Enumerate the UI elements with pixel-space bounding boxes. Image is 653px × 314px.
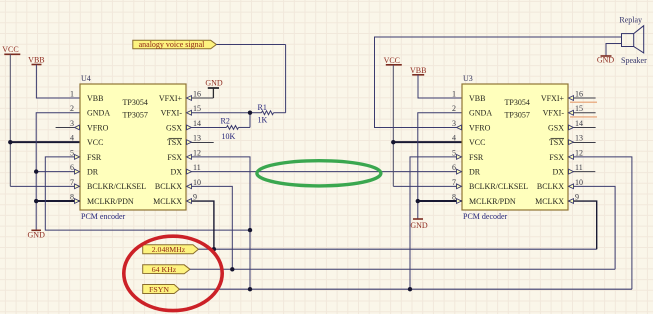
resistor R1 1K — [250, 112, 262, 114]
pin 13 U4 TSX open stub — [187, 142, 214, 144]
pin 13 U3 open stub — [567, 142, 596, 144]
svg-text:GNDA: GNDA — [87, 109, 110, 118]
junction FSYN / U4 FSX — [248, 287, 252, 291]
svg-text:analogy voice signal: analogy voice signal — [139, 40, 206, 49]
wire DX line U4 pin11 to U3 pin6 DR — [187, 171, 462, 173]
red highlight ellipse around clock flags — [124, 236, 222, 310]
junction 2.048MHz / U4 MCLKX — [212, 247, 216, 251]
svg-text:TP3054: TP3054 — [505, 98, 530, 107]
svg-text:R2: R2 — [221, 117, 230, 126]
junction FSYN / U3 FSR — [408, 287, 412, 291]
svg-text:10K: 10K — [222, 132, 236, 141]
green highlight ellipse on DX line — [257, 161, 381, 186]
junction VFXI- node — [248, 111, 252, 115]
svg-text:11: 11 — [193, 163, 201, 172]
svg-text:VCC: VCC — [384, 56, 400, 65]
wire 2.048MHz line — [198, 248, 596, 250]
svg-text:BCLKX: BCLKX — [537, 182, 564, 191]
svg-text:TSX: TSX — [549, 138, 564, 147]
wire U4 pin16 VFXI+ to GND — [187, 97, 213, 99]
IC U4 TP3054/TP3057 body — [80, 84, 186, 210]
svg-text:VFRO: VFRO — [87, 123, 109, 132]
svg-text:12: 12 — [575, 148, 583, 157]
svg-text:Speaker: Speaker — [621, 56, 647, 65]
ground symbol bottom-left — [31, 229, 41, 231]
wire up to U3 pin12 FSX — [567, 157, 632, 289]
svg-text:16: 16 — [575, 90, 583, 99]
svg-text:VCC: VCC — [87, 138, 103, 147]
svg-text:7: 7 — [70, 178, 74, 187]
pin 15 U3 open stub — [567, 112, 596, 114]
svg-text:8: 8 — [70, 193, 74, 202]
svg-text:BCLKX: BCLKX — [155, 182, 182, 191]
svg-text:11: 11 — [575, 163, 583, 172]
svg-text:GND: GND — [410, 221, 428, 230]
svg-text:MCLKX: MCLKX — [535, 197, 564, 206]
svg-text:VFXI-: VFXI- — [543, 109, 565, 118]
svg-text:VBB: VBB — [87, 94, 103, 103]
svg-text:VCC: VCC — [469, 138, 485, 147]
svg-text:1: 1 — [70, 90, 74, 99]
svg-text:10: 10 — [575, 178, 583, 187]
svg-text:VBB: VBB — [469, 94, 485, 103]
svg-text:DX: DX — [170, 168, 182, 177]
svg-text:GND: GND — [597, 56, 615, 65]
wire U4 pin4 VCC — [10, 141, 80, 143]
wire FSYN line — [179, 288, 632, 290]
junction FSX vertical / FSR line — [248, 228, 252, 232]
pin 16 U3 open stub — [567, 97, 596, 99]
svg-text:13: 13 — [193, 134, 201, 143]
net flag 64 KHz — [143, 265, 190, 274]
svg-text:1K: 1K — [258, 116, 268, 125]
svg-text:2: 2 — [70, 104, 74, 113]
svg-text:3: 3 — [70, 119, 74, 128]
svg-text:2.048MHz: 2.048MHz — [152, 245, 186, 254]
wire from flag to vertical — [216, 44, 285, 46]
svg-text:5: 5 — [452, 148, 456, 157]
svg-text:TP3054: TP3054 — [123, 98, 148, 107]
svg-text:VFXI+: VFXI+ — [159, 94, 183, 103]
svg-text:GSX: GSX — [166, 123, 182, 132]
svg-text:VFXI+: VFXI+ — [541, 94, 565, 103]
svg-text:1: 1 — [452, 90, 456, 99]
svg-text:DR: DR — [87, 168, 99, 177]
net flag analogy voice signal — [133, 40, 217, 49]
svg-text:12: 12 — [193, 148, 201, 157]
svg-text:TSX: TSX — [167, 138, 182, 147]
svg-text:FSX: FSX — [167, 153, 182, 162]
svg-text:14: 14 — [193, 119, 201, 128]
net flag 2.048MHz — [143, 245, 199, 254]
svg-text:15: 15 — [193, 104, 201, 113]
wire U4 pin10 BCLKX down to 64KHz line — [187, 186, 232, 269]
junction GNDA line / U4 pin6 — [34, 169, 38, 173]
wire U4 pin9 MCLKX down to 2.048MHz line — [187, 201, 214, 249]
wire U4 pin15 VFXI- node — [187, 112, 250, 114]
wire VCC rail right — [392, 65, 394, 187]
junction U3 GNDA / pin8 — [416, 199, 420, 203]
wire 64KHz line — [190, 268, 615, 270]
svg-text:VCC: VCC — [2, 45, 18, 54]
svg-text:16: 16 — [193, 90, 201, 99]
svg-text:14: 14 — [575, 119, 583, 128]
svg-text:9: 9 — [575, 193, 579, 202]
wire VBB to U3 pin1 — [418, 75, 462, 98]
wire speaker line to U3 pin3 VFRO — [375, 37, 622, 127]
junction 64KHz / U4 BCLKX — [230, 267, 234, 271]
svg-text:DX: DX — [552, 168, 564, 177]
svg-text:VFXI-: VFXI- — [161, 109, 183, 118]
wire U3 pin7 BCLKR/CLKSEL to VCC — [393, 185, 462, 187]
svg-text:4: 4 — [70, 134, 74, 143]
svg-text:U3: U3 — [463, 74, 473, 83]
wire U4 pin5 FSR down to frame-sync line — [45, 157, 250, 230]
wire U4 pin6 DR to ground line — [36, 171, 80, 173]
svg-text:FSX: FSX — [549, 153, 564, 162]
wire analog signal vertical to R1 — [285, 45, 287, 113]
svg-text:BCLKR/CLKSEL: BCLKR/CLKSEL — [469, 182, 528, 191]
svg-text:VBB: VBB — [28, 55, 44, 64]
svg-text:VBB: VBB — [410, 66, 426, 75]
wire speaker bottom pin to GND — [606, 44, 622, 57]
resistor R2 10K on GSX — [187, 126, 227, 128]
svg-text:10: 10 — [193, 178, 201, 187]
ground symbol below U3 — [413, 218, 423, 220]
svg-text:VFRO: VFRO — [469, 123, 491, 132]
svg-text:R1: R1 — [258, 103, 267, 112]
IC U3 TP3054/TP3057 body — [462, 84, 568, 210]
wire U3 pin8 MCLKR/PDN — [418, 200, 462, 202]
svg-text:DR: DR — [469, 168, 481, 177]
junction VCC rail / U3 pin4 — [391, 140, 395, 144]
wire U4 pin2 GNDA down to ground — [36, 113, 80, 231]
svg-text:3: 3 — [452, 119, 456, 128]
svg-text:2: 2 — [452, 104, 456, 113]
svg-text:TP3057: TP3057 — [123, 110, 148, 119]
svg-text:15: 15 — [575, 104, 583, 113]
speaker symbol — [622, 26, 644, 53]
wire VBB to U4 pin1 — [36, 65, 80, 99]
ground symbol at speaker — [601, 55, 612, 57]
svg-text:FSR: FSR — [469, 153, 484, 162]
wire GSX node up to VFXI- node — [249, 113, 251, 128]
svg-text:Replay: Replay — [619, 16, 642, 25]
svg-text:7: 7 — [452, 178, 456, 187]
wire up to U3 pin10 BCLKX — [567, 186, 615, 269]
svg-text:13: 13 — [575, 134, 583, 143]
svg-text:6: 6 — [452, 163, 456, 172]
svg-text:GND: GND — [28, 231, 46, 240]
svg-text:6: 6 — [70, 163, 74, 172]
wire U4 pin8 MCLKR/PDN to ground line — [36, 200, 80, 202]
svg-text:5: 5 — [70, 148, 74, 157]
svg-text:BCLKR/CLKSEL: BCLKR/CLKSEL — [87, 182, 146, 191]
pin 3 U4 VFRO open stub — [56, 126, 80, 128]
svg-text:FSR: FSR — [87, 153, 102, 162]
svg-text:MCLKR/PDN: MCLKR/PDN — [469, 197, 516, 206]
svg-text:4: 4 — [452, 134, 456, 143]
svg-text:MCLKX: MCLKX — [153, 197, 182, 206]
svg-text:GNDA: GNDA — [469, 109, 492, 118]
junction VCC rail / U4 pin4 — [8, 140, 12, 144]
svg-text:MCLKR/PDN: MCLKR/PDN — [87, 197, 134, 206]
net flag FSYN — [143, 285, 180, 294]
svg-text:PCM encoder: PCM encoder — [81, 212, 126, 221]
svg-text:64 KHz: 64 KHz — [152, 265, 177, 274]
wire U4 pin7 BCLKR/CLKSEL to VCC — [10, 185, 80, 187]
wire up to U3 pin9 MCLKX — [567, 201, 597, 249]
wire U4 pin12 FSX down to FSYN line — [187, 157, 250, 289]
svg-text:8: 8 — [452, 193, 456, 202]
wire U3 pin5 FSR down to FSYN line — [410, 157, 462, 289]
svg-text:TP3057: TP3057 — [505, 110, 530, 119]
junction GNDA line / U4 pin8 — [34, 199, 38, 203]
wire U3 pin4 VCC — [393, 141, 462, 143]
wire VCC rail left — [9, 54, 11, 186]
svg-text:U4: U4 — [81, 74, 91, 83]
svg-text:FSYN: FSYN — [149, 285, 169, 294]
svg-text:GSX: GSX — [548, 123, 564, 132]
pin 14 U3 open stub — [567, 126, 596, 128]
wire U3 pin2 GNDA down to ground — [418, 113, 462, 219]
svg-text:GND: GND — [205, 79, 223, 88]
svg-text:9: 9 — [193, 193, 197, 202]
pin 11 U3 open stub — [567, 171, 595, 173]
svg-text:PCM decoder: PCM decoder — [463, 212, 508, 221]
